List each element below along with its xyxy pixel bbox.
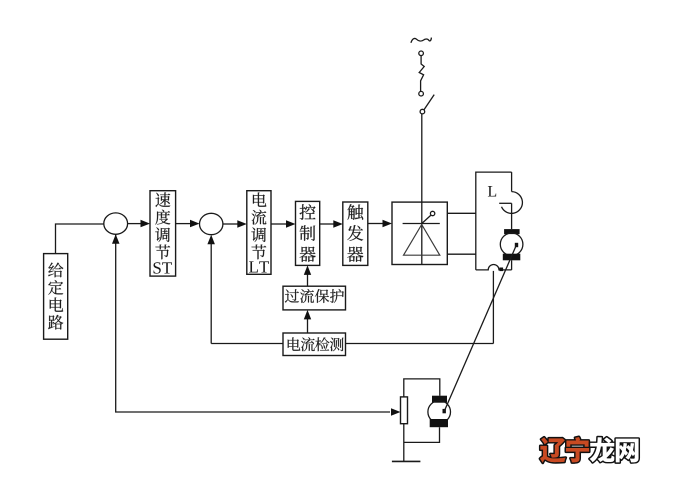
wire thyristor output bottom <box>447 253 476 255</box>
tach generator bottom brush <box>430 419 448 427</box>
motor shaft dot <box>515 243 518 247</box>
AC source symbol <box>411 38 432 43</box>
fuse / breaker zigzag on supply wire <box>419 56 424 92</box>
wire motor to bottom rail <box>511 260 513 270</box>
wire inductor to motor <box>511 203 513 229</box>
ground symbol <box>392 460 421 462</box>
wire controller to trigger with arrow <box>320 220 343 228</box>
wire junction2 to LT with arrow <box>223 220 247 228</box>
thyristor gate lead and circle <box>422 211 435 223</box>
tach circuit top wire <box>404 379 440 397</box>
wire LT to controller with arrow <box>271 220 296 228</box>
tach generator armature circle <box>428 401 451 424</box>
potentiometer resistor <box>401 397 408 424</box>
current sense tap wire down <box>492 271 494 344</box>
wire overcurrent protection up to controller with arrow <box>304 265 311 286</box>
junction dot on bottom rail <box>500 268 504 272</box>
current feedback horizontal wire <box>211 343 493 345</box>
inductor L label <box>488 186 496 196</box>
summing junction 2 <box>200 213 223 234</box>
block 速度调节 ST (speed regulator) <box>150 191 176 276</box>
block 触发器 (trigger unit) <box>343 202 368 265</box>
supply wire down to thyristor box <box>421 114 423 202</box>
thyristor symbol: cathode line <box>421 202 423 264</box>
switch terminal circle <box>420 109 425 114</box>
tach shaft dot <box>443 409 446 413</box>
thyristor symbol: anode bar <box>403 223 440 225</box>
switch blade <box>424 95 434 110</box>
terminal circle top <box>419 51 424 56</box>
wire trigger to thyristor bridge with arrow <box>368 220 392 227</box>
wire junction1 to ST with arrow <box>128 220 150 228</box>
block 给定电路 (reference setting circuit) <box>44 254 68 340</box>
current feedback wire up into junction2 with arrow <box>207 235 215 344</box>
thyristor rectifier box <box>392 202 447 264</box>
tach generator top brush <box>432 396 447 403</box>
wire top rail down to inductor <box>511 172 513 192</box>
block 电流调节 LT (current regulator) <box>247 191 271 275</box>
thyristor symbol: triangle <box>404 225 440 256</box>
block 电流检测 (current detection) <box>283 333 346 356</box>
load loop left bus and top rail <box>476 172 512 270</box>
speed feedback arrow into junction1 <box>112 234 120 244</box>
bottom rail with crossover hump <box>476 265 512 270</box>
watermark 辽宁龙网 <box>540 437 639 463</box>
block 控制器 (controller) <box>296 201 320 265</box>
motor M armature circle <box>500 233 523 256</box>
motor M bottom brush <box>503 254 521 261</box>
inductor coil symbol <box>499 192 522 214</box>
wire ST to junction2 with arrow <box>176 220 200 228</box>
motor M top brush <box>504 229 519 234</box>
mechanical coupling shaft line motor to tach <box>444 245 516 411</box>
wire thyristor output top <box>447 212 476 214</box>
wire from reference box up to main line <box>56 224 104 254</box>
terminal circle middle <box>419 91 424 96</box>
speed feedback wire from junction1 down to potentiometer <box>116 234 401 415</box>
wire potentiometer to bottom rail and ground stem <box>404 424 440 462</box>
summing junction 1 <box>104 213 128 234</box>
wire current detection up to overcurrent protection with arrow <box>304 310 311 333</box>
block 过流保护 (overcurrent protection) <box>283 286 346 310</box>
